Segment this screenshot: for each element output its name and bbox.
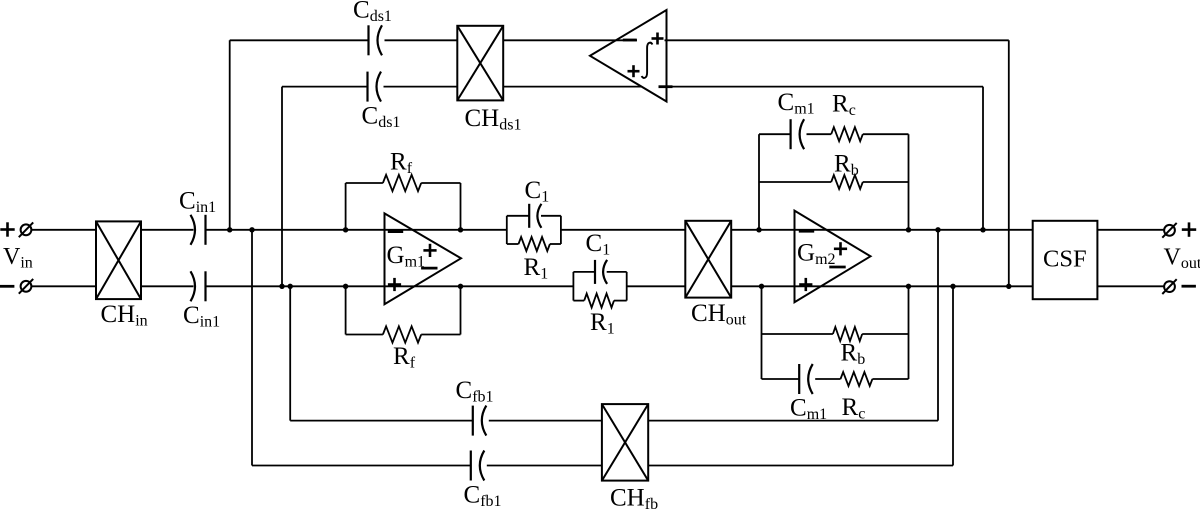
op-amp Gm2 triangle — [795, 211, 871, 303]
svg-text:Rb: Rb — [841, 340, 866, 369]
svg-text:Gm2: Gm2 — [797, 240, 836, 269]
wire riser: bottom wire down to FB upper — [289, 286, 291, 420]
wire DSL lower: C_ds1 to CH_ds1 — [384, 86, 458, 88]
capacitor C_ds1 (lower) — [368, 72, 382, 102]
capacitor Cm1 (bottom) — [799, 364, 813, 394]
wire CH_in to C_in1 top — [141, 229, 194, 231]
wire CSF to Vout+ — [1097, 229, 1163, 231]
svg-text:Rc: Rc — [842, 394, 866, 423]
node dot top F (comp net right) — [906, 227, 911, 232]
node dot bottom E (comp net left) — [759, 284, 764, 289]
wire CH_in to C_in1 bottom — [141, 285, 194, 287]
capacitor C1 (block 1) — [529, 204, 541, 228]
node dot top B (to FB lower) — [249, 227, 254, 232]
node dot bottom H (from DSL upper) — [1006, 284, 1011, 289]
op-amp Gm1 plus (output top) — [423, 244, 436, 257]
wire comp-top left riser — [758, 134, 760, 230]
node dot top C (Rf left) — [343, 227, 348, 232]
terminal Vin+ (plus sign) — [0, 222, 14, 236]
wire DSL upper: integrator to riser — [665, 39, 1009, 41]
node dot bottom B (to FB upper) — [288, 284, 293, 289]
svg-text:Gm1: Gm1 — [387, 242, 426, 271]
terminal Vout+ (plus sign) — [1182, 222, 1196, 236]
label Gm1 — [387, 242, 426, 271]
svg-text:R1: R1 — [590, 309, 615, 338]
wire riser: top wire down to FB lower — [251, 230, 253, 466]
wire bottom signal: RC block 2 to CH_out — [627, 285, 686, 287]
label Cm1 (top) — [778, 89, 815, 118]
svg-text:C1: C1 — [525, 177, 550, 206]
svg-text:Rb: Rb — [834, 151, 859, 180]
label Gm2 — [797, 240, 836, 269]
chopper CH_out — [685, 221, 731, 298]
label Rf (bottom) — [393, 343, 416, 372]
wire DSL upper: C_ds1 to CH_ds1 — [385, 39, 458, 41]
label C_in1 (bottom) — [183, 302, 220, 331]
op-amp integrator plus (bottom left) — [628, 65, 640, 77]
label C_ds1 (lower) — [362, 103, 401, 132]
svg-text:Cds1: Cds1 — [362, 103, 401, 132]
op-amp integrator minus (bottom) — [659, 85, 673, 88]
op-amp integrator minus (top) — [623, 39, 637, 42]
svg-text:Cm1: Cm1 — [778, 89, 815, 118]
op-amp Gm2 minus (input top) — [799, 230, 814, 233]
chopper CH_in — [96, 221, 141, 299]
wire FB upper: C_fb1 to CH_fb — [489, 420, 602, 422]
wire bottom signal: CH_out to CSF — [731, 285, 1032, 287]
wire riser: top wire up to DSL upper — [229, 40, 231, 230]
wire Vin+ to CH_in — [32, 229, 96, 231]
label CH_in — [101, 301, 148, 330]
node dot bottom F (comp net right) — [906, 284, 911, 289]
capacitor C1 (block 2) — [595, 260, 607, 284]
chopper CH_fb — [602, 404, 648, 481]
node dot bottom A (from DSL lower) — [279, 284, 284, 289]
svg-text:Vout: Vout — [1164, 245, 1200, 273]
label Vin — [3, 244, 33, 272]
wire comp-top branch Rb — [759, 181, 909, 183]
label Rf (top) — [390, 148, 413, 177]
terminal Vout- (circle) — [1162, 279, 1176, 294]
wire riser: bottom wire down to FB lower — [952, 286, 954, 465]
terminal Vout+ (circle) — [1162, 223, 1176, 238]
wire FB lower: CH_fb to riser — [648, 465, 953, 467]
label C_fb1 (upper) — [456, 377, 494, 406]
wire comp-bottom left riser — [761, 286, 763, 379]
svg-text:CHin: CHin — [101, 301, 148, 330]
capacitor Cm1 (top) — [791, 119, 805, 149]
wire top signal: CH_out to CSF — [731, 229, 1032, 231]
block CSF — [1033, 221, 1098, 299]
svg-text:R1: R1 — [524, 254, 549, 283]
resistor R1 (block 1) zigzag — [519, 237, 550, 251]
label R1 (block 1) — [524, 254, 549, 283]
label Rb (top) — [834, 151, 859, 180]
label R1 (block 2) — [590, 309, 615, 338]
op-amp integrator integral sign — [642, 43, 653, 78]
wire FB lower: riser to C_fb1 — [252, 465, 471, 467]
wire DSL lower: riser to C_ds1 — [282, 86, 368, 88]
node dot top A (to DSL upper) — [227, 227, 232, 232]
resistor Rf (top) zigzag — [383, 175, 421, 191]
label Rc (top) — [832, 91, 856, 120]
capacitor C_fb1 (upper) — [473, 406, 487, 436]
label Rb (bottom) — [841, 340, 866, 369]
svg-text:Rf: Rf — [390, 148, 413, 177]
wire comp-top right riser — [908, 134, 910, 230]
wire riser: top wire up to DSL lower — [982, 87, 984, 230]
wire FB upper: riser to C_fb1 — [290, 420, 473, 422]
wire top signal: C_in1 to RC block 1 — [206, 229, 507, 231]
svg-text:Vin: Vin — [3, 244, 33, 272]
label C1 (block 1) — [525, 177, 550, 206]
op-amp Gm1 minus (input top) — [388, 230, 403, 233]
svg-text:Cm1: Cm1 — [790, 395, 827, 424]
wire DSL upper: riser to C_ds1 — [230, 39, 369, 41]
RC block 1 frame — [507, 216, 561, 244]
label C_ds1 (upper) — [353, 0, 392, 25]
label C_in1 (top) — [179, 188, 216, 217]
label Vout — [1164, 245, 1200, 273]
terminal Vin+ (circle) — [19, 222, 33, 237]
svg-text:Cds1: Cds1 — [353, 0, 392, 25]
node dot bottom D (Rf right / Gm1 out) — [458, 284, 463, 289]
resistor Rf (bottom) loop — [346, 286, 461, 334]
resistor R1 (block 2) zigzag — [584, 294, 614, 308]
resistor Rf (top) loop — [346, 183, 461, 230]
label C1 (block 2) — [586, 230, 611, 259]
wire CSF to Vout- — [1097, 285, 1163, 287]
resistor Rb (bottom) zigzag — [833, 327, 862, 341]
svg-text:CHds1: CHds1 — [465, 105, 522, 134]
wire DSL lower: CH_ds1 to integrator — [503, 86, 641, 88]
wire top signal: RC block 1 to CH_out — [561, 229, 685, 231]
label C_fb1 (lower) — [464, 482, 502, 510]
svg-text:CHfb: CHfb — [610, 485, 658, 510]
label Rc (bottom) — [842, 394, 866, 423]
wire comp-top branch Cm1-Rc — [759, 133, 909, 135]
node dot top E (comp net left) — [756, 227, 761, 232]
RC block 2 frame — [573, 272, 626, 301]
capacitor C_fb1 (lower) — [471, 451, 485, 481]
label CH_fb — [610, 485, 658, 510]
wire comp-bottom right riser — [908, 286, 910, 379]
op-amp integrator plus (top right) — [652, 33, 664, 45]
op-amp Gm2 plus (output top) — [834, 242, 847, 255]
terminal Vin- (circle) — [19, 279, 33, 294]
svg-text:Cfb1: Cfb1 — [464, 482, 502, 510]
wire DSL lower: integrator to riser — [673, 86, 984, 88]
wire Vin- to CH_in — [32, 285, 96, 287]
resistor Rc (top) zigzag — [831, 127, 863, 141]
resistor Rf (bottom) zigzag — [383, 326, 421, 342]
label CH_ds1 — [465, 105, 522, 134]
capacitor C_in1 (bottom) — [191, 271, 206, 301]
svg-text:CHout: CHout — [691, 300, 747, 329]
chopper CH_ds1 — [457, 26, 503, 101]
wire bottom signal: C_in1 to RC block 2 — [206, 285, 574, 287]
node dot bottom C (Rf left) — [343, 284, 348, 289]
wire FB upper: CH_fb to riser — [648, 420, 938, 422]
svg-text:Cin1: Cin1 — [179, 188, 216, 217]
svg-text:Cin1: Cin1 — [183, 302, 220, 331]
op-amp Gm1 triangle — [385, 213, 462, 304]
op-amp Gm2 plus (input bottom) — [799, 278, 812, 291]
wire FB lower: C_fb1 to CH_fb — [487, 465, 602, 467]
capacitor C_in1 (top) — [191, 215, 206, 245]
op-amp Gm2 minus (output bottom) — [829, 266, 845, 269]
terminal Vin- (minus sign) — [0, 285, 14, 288]
wire riser: bottom wire up to DSL upper — [1008, 40, 1010, 286]
resistor Rb (top) zigzag — [831, 175, 863, 189]
wire riser: top wire down to FB upper — [937, 230, 939, 421]
node dot top G (to FB upper) — [935, 227, 940, 232]
wire comp-bottom branch Rb — [762, 333, 909, 335]
label Cm1 (bottom) — [790, 395, 827, 424]
svg-text:CSF: CSF — [1043, 246, 1087, 273]
svg-text:C1: C1 — [586, 230, 611, 259]
node dot top D (Rf right / Gm1 out) — [458, 227, 463, 232]
wire riser: bottom wire up to DSL lower — [281, 87, 283, 287]
op-amp integrator triangle (left-pointing) — [590, 10, 667, 102]
node dot bottom G (to FB lower) — [950, 284, 955, 289]
svg-text:Rf: Rf — [393, 343, 416, 372]
wire comp-bottom branch Cm1-Rc — [762, 378, 909, 380]
node dot top H (from DSL lower) — [980, 227, 985, 232]
svg-text:Cfb1: Cfb1 — [456, 377, 494, 406]
resistor Rc (bottom) zigzag — [841, 372, 873, 386]
capacitor C_ds1 (upper) — [369, 25, 383, 55]
label CSF — [1043, 246, 1087, 273]
op-amp Gm1 plus (input bottom) — [388, 278, 401, 291]
label CH_out — [691, 300, 747, 329]
wire DSL upper: CH_ds1 to integrator — [503, 39, 637, 41]
svg-text:Rc: Rc — [832, 91, 856, 120]
terminal Vout- (minus sign) — [1182, 285, 1196, 288]
op-amp Gm1 minus (output bottom) — [421, 267, 437, 270]
